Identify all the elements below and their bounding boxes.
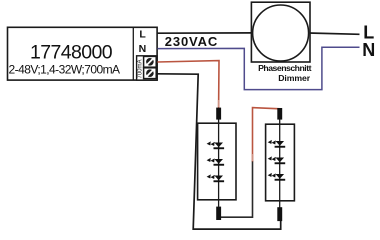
LED D4: [268, 140, 286, 148]
wire L black dimmer to L label: [309, 33, 360, 34]
svg-text:N: N: [362, 40, 375, 60]
svg-text:230VAC: 230VAC: [165, 34, 218, 49]
screw terminal +: [144, 56, 157, 67]
wire series link red part: [253, 108, 280, 162]
svg-text:700mA: 700mA: [138, 59, 144, 78]
dimmer circle: [253, 5, 309, 61]
screw terminal -: [144, 68, 157, 79]
svg-text:L: L: [139, 29, 146, 41]
wire series link red fade: [252, 154, 254, 161]
LED D5: [268, 156, 286, 164]
LED module 1 body: [198, 119, 236, 207]
svg-text:17748000: 17748000: [30, 41, 113, 63]
wire red driver to LED module 1: [157, 61, 219, 108]
LED driver U1 box: [8, 27, 158, 80]
wire L black driver to dimmer: [157, 32, 252, 34]
connector stub module1 bottom: [216, 207, 221, 220]
LED D6: [268, 173, 286, 181]
connector stub module2 bottom: [277, 207, 282, 221]
wire series link black part: [219, 161, 253, 217]
svg-text:Phasenschnitt: Phasenschnitt: [258, 63, 311, 73]
connector stub module2 top: [277, 108, 282, 120]
svg-text:Dimmer: Dimmer: [278, 73, 310, 83]
LED D3: [207, 174, 225, 182]
wire red fade near stub: [218, 100, 220, 107]
terminal block 700mA: [137, 56, 158, 80]
svg-text:2-48V;1,4-32W;700mA: 2-48V;1,4-32W;700mA: [9, 63, 120, 77]
LED D1: [207, 141, 225, 149]
connector stub module1 top: [216, 108, 221, 120]
dimmer box: [251, 2, 310, 62]
LED D2: [207, 158, 225, 166]
svg-text:N: N: [139, 43, 147, 55]
wire black driver return: [157, 74, 280, 229]
wire N blue: [157, 47, 359, 89]
LED module 2 body: [266, 119, 295, 208]
